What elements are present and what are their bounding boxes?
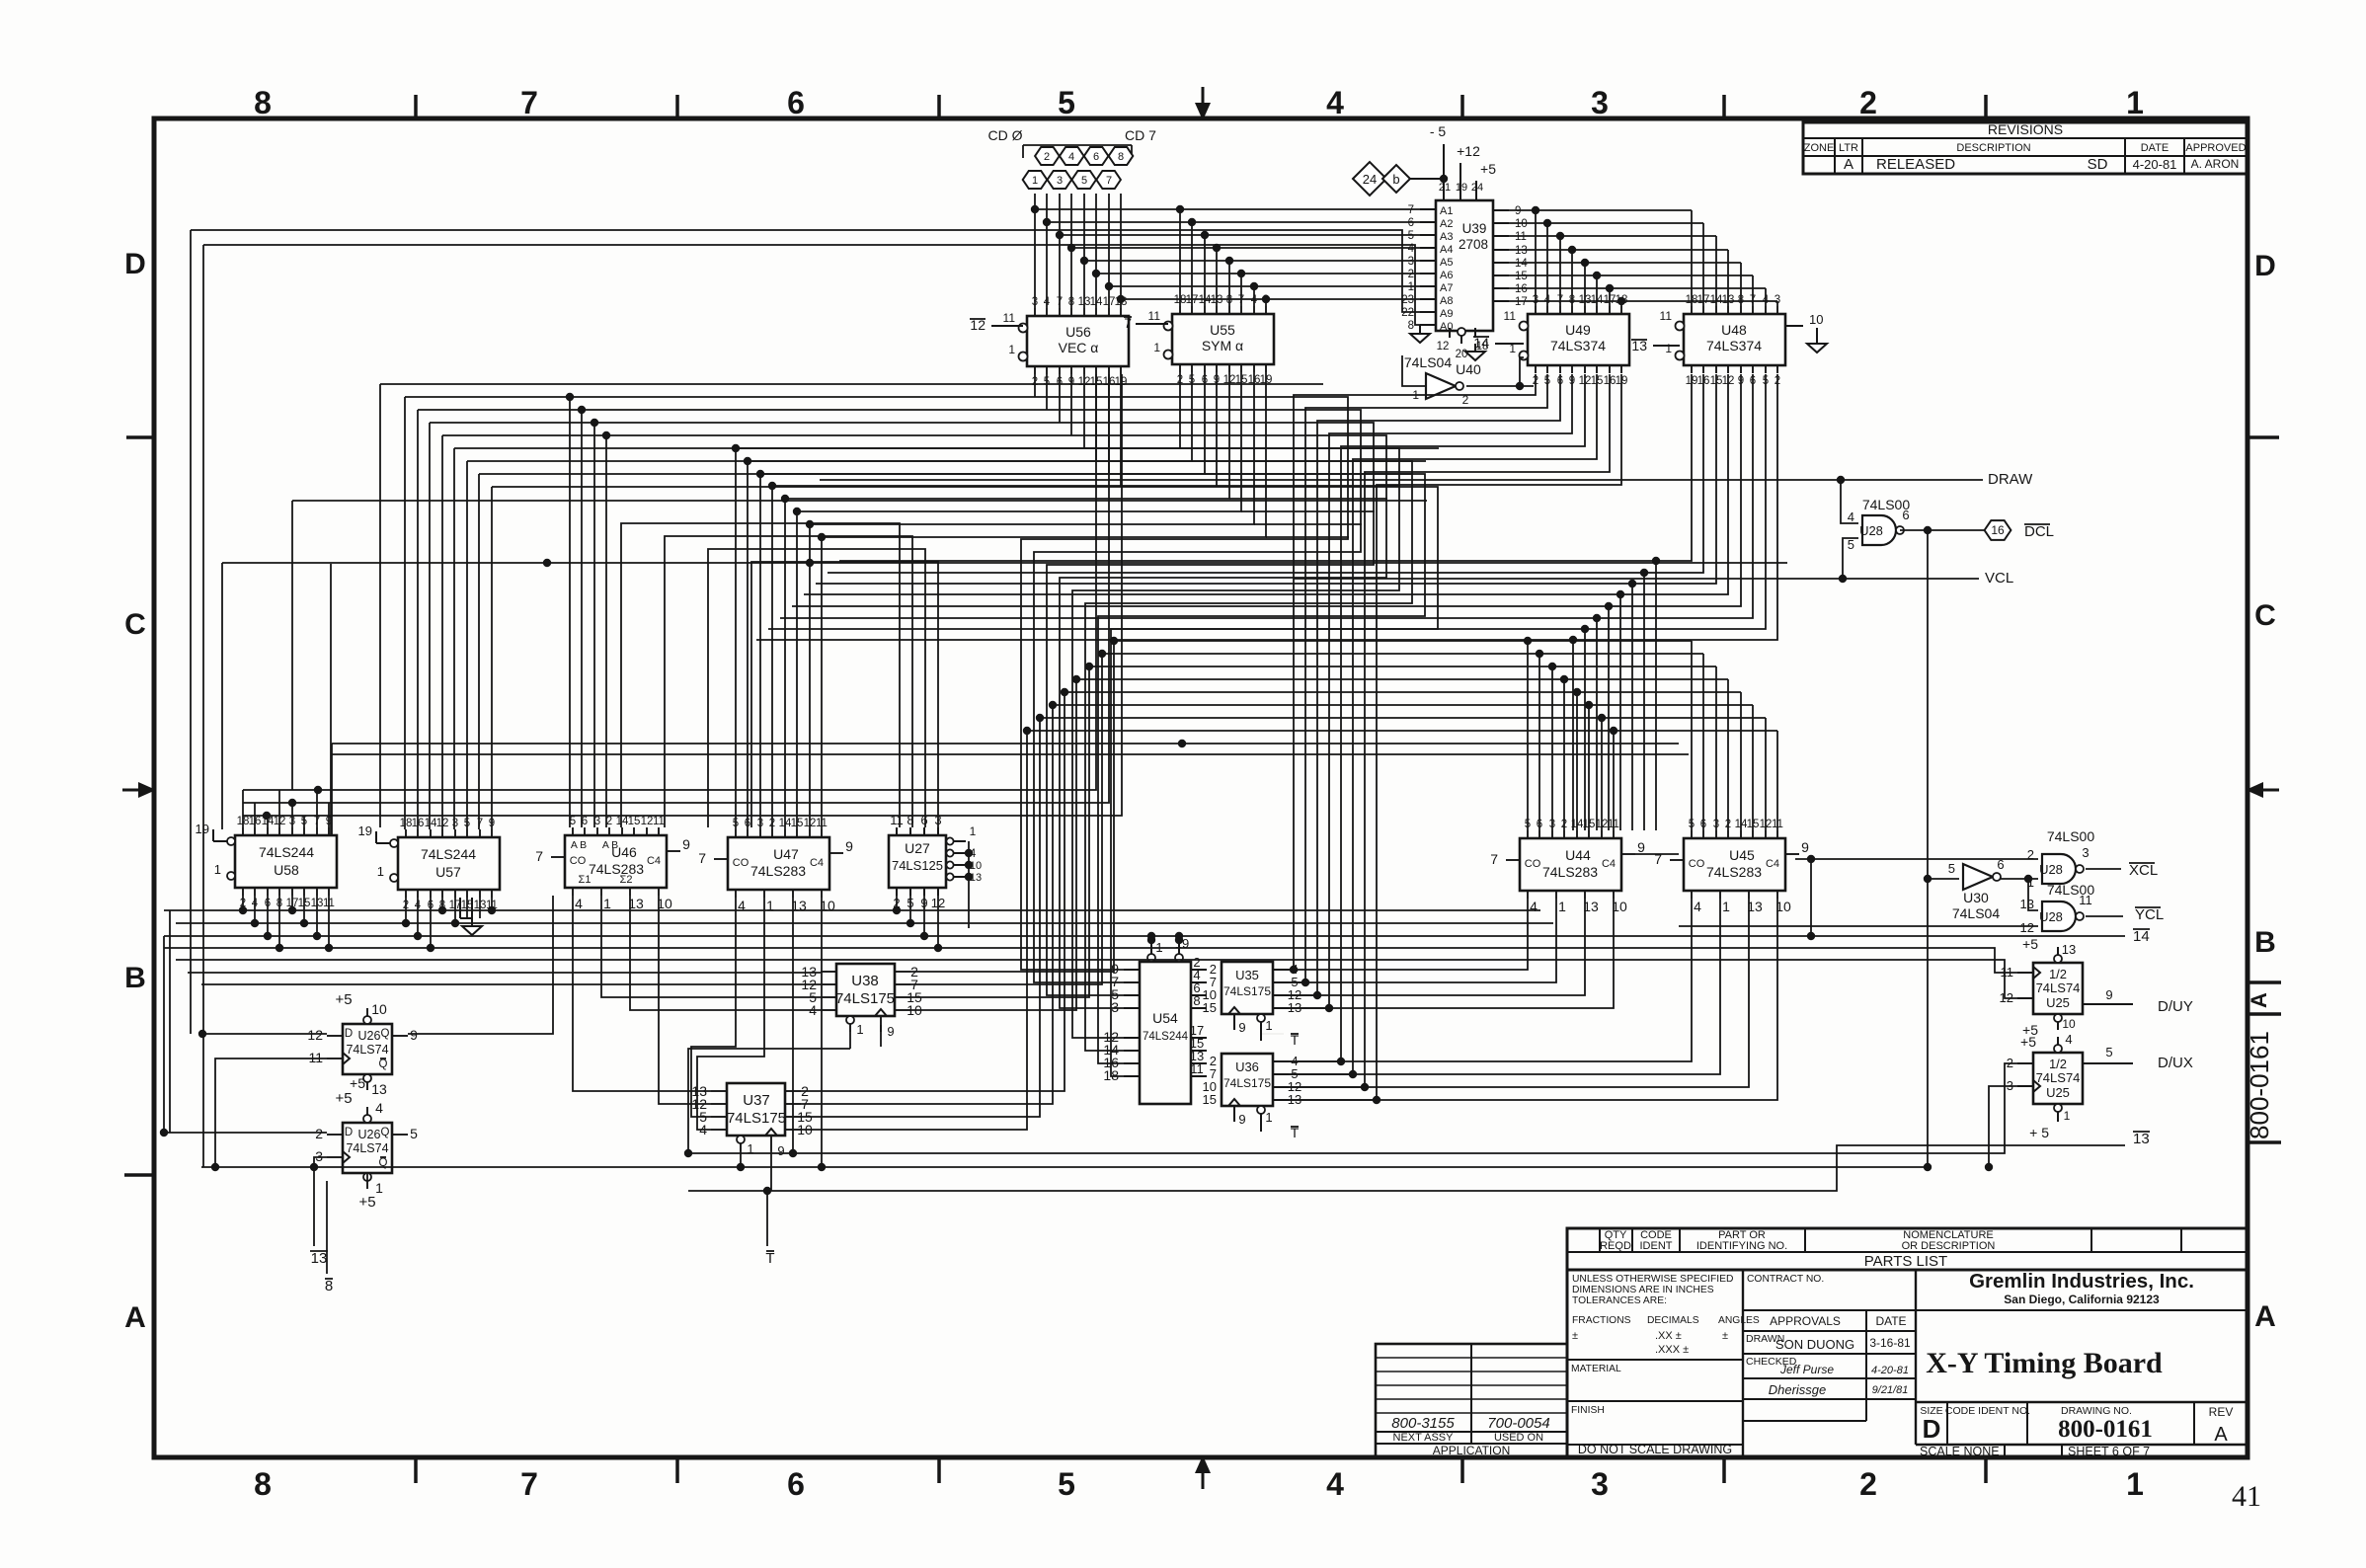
- ground under U57 outputs: [460, 898, 482, 935]
- svg-text:1: 1: [1408, 281, 1414, 293]
- svg-text:ANGLES: ANGLES: [1718, 1315, 1760, 1326]
- svg-text:6: 6: [1408, 217, 1414, 229]
- svg-text:U40: U40: [1456, 361, 1481, 377]
- svg-text:U26: U26: [358, 1128, 381, 1141]
- svg-text:C4: C4: [647, 855, 661, 867]
- svg-text:D: D: [1923, 1414, 1941, 1444]
- svg-text:A: A: [2254, 1300, 2276, 1333]
- svg-text:4: 4: [575, 896, 583, 911]
- svg-text:D: D: [345, 1028, 353, 1040]
- inverter U40 74LS04: [1404, 354, 1481, 407]
- svg-text:1: 1: [1265, 1110, 1272, 1125]
- svg-text:1: 1: [1558, 899, 1566, 914]
- wire U44 sum outputs to U35 inputs: [1289, 899, 1614, 1008]
- wire bus band2 U55 outputs to U47 and U27 inputs: [732, 372, 1439, 829]
- IC U57 74LS244: [358, 818, 500, 911]
- svg-text:+5: +5: [335, 991, 352, 1008]
- svg-text:+5: +5: [358, 1194, 375, 1211]
- svg-text:8: 8: [1193, 993, 1200, 1008]
- IC U55 SYM PROM: [1124, 294, 1274, 386]
- svg-text:9: 9: [887, 1024, 894, 1039]
- svg-text:2: 2: [1408, 269, 1414, 280]
- svg-text:41: 41: [2232, 1480, 2261, 1513]
- svg-text:1: 1: [214, 862, 221, 877]
- svg-text:CONTRACT NO.: CONTRACT NO.: [1747, 1274, 1824, 1285]
- svg-text:18: 18: [400, 818, 413, 829]
- svg-text:FINISH: FINISH: [1571, 1405, 1605, 1416]
- svg-text:1: 1: [1153, 341, 1160, 354]
- svg-text:U28: U28: [1859, 523, 1883, 538]
- IC U38 74LS175: [801, 964, 922, 1039]
- svg-text:VCL: VCL: [1985, 570, 2013, 587]
- svg-text:74LS74: 74LS74: [346, 1043, 388, 1057]
- svg-text:2: 2: [1859, 85, 1877, 120]
- svg-text:13: 13: [2062, 942, 2076, 957]
- wire CD hex connectors down to U56 inputs: [1035, 194, 1121, 308]
- svg-text:3: 3: [2082, 845, 2089, 860]
- svg-text:7: 7: [520, 85, 538, 120]
- svg-text:3: 3: [1057, 175, 1063, 187]
- svg-text:D: D: [345, 1127, 353, 1138]
- svg-text:12: 12: [2020, 920, 2034, 935]
- svg-text:13: 13: [1515, 245, 1528, 257]
- svg-text:A: A: [124, 1301, 146, 1334]
- svg-text:4: 4: [375, 1100, 383, 1116]
- application block: [1376, 1344, 1567, 1457]
- svg-text:1: 1: [2126, 1466, 2144, 1502]
- wire staircase bus to U44/U45 inputs and U38/U37 outputs: [801, 637, 1777, 1130]
- svg-text:4: 4: [1848, 510, 1854, 524]
- svg-text:11: 11: [2079, 893, 2092, 907]
- svg-text:74LS283: 74LS283: [750, 863, 806, 879]
- svg-text:DO NOT SCALE DRAWING: DO NOT SCALE DRAWING: [1578, 1443, 1732, 1456]
- svg-text:+5: +5: [335, 1090, 352, 1107]
- parts list header: [1567, 1228, 2248, 1270]
- svg-text:9: 9: [1637, 839, 1645, 855]
- svg-text:U26: U26: [358, 1029, 381, 1043]
- svg-text:D/UY: D/UY: [2158, 998, 2193, 1015]
- svg-text:2: 2: [315, 1126, 323, 1141]
- IC U37 74LS175: [691, 1083, 813, 1158]
- wire long rail crossing at y564: [222, 501, 1787, 834]
- wire left rails to U39 A9 A0 pins: [191, 230, 1420, 1167]
- svg-text:FRACTIONS: FRACTIONS: [1572, 1315, 1631, 1326]
- svg-text:TOLERANCES ARE:: TOLERANCES ARE:: [1572, 1295, 1667, 1306]
- svg-text:1/2: 1/2: [2049, 1057, 2067, 1071]
- svg-text:1: 1: [1665, 342, 1672, 355]
- svg-text:APPLICATION: APPLICATION: [1433, 1444, 1510, 1457]
- svg-text:11: 11: [1504, 309, 1517, 323]
- svg-text:74LS244: 74LS244: [259, 844, 314, 860]
- wire U58/U57 outputs onto long rails: [170, 896, 496, 1133]
- svg-text:.XX ±: .XX ±: [1655, 1330, 1682, 1342]
- net label T bar at U35: [1261, 1032, 1300, 1048]
- svg-text:LTR: LTR: [1839, 142, 1858, 154]
- svg-text:U57: U57: [435, 864, 461, 880]
- svg-text:8: 8: [1118, 151, 1124, 163]
- svg-text:15: 15: [628, 816, 641, 827]
- svg-text:74LS00: 74LS00: [2047, 828, 2094, 844]
- svg-text:Q: Q: [381, 1127, 390, 1138]
- net label T bar at U36: [1261, 1125, 1300, 1140]
- svg-text:U45: U45: [1729, 847, 1755, 863]
- svg-text:10: 10: [1515, 218, 1528, 230]
- svg-text:10: 10: [2062, 1017, 2076, 1031]
- svg-text:U44: U44: [1565, 847, 1591, 863]
- svg-text:U49: U49: [1565, 322, 1591, 338]
- svg-text:4-20-81: 4-20-81: [1871, 1365, 1909, 1376]
- svg-text:C4: C4: [810, 857, 824, 869]
- IC U49 74LS374: [1473, 294, 1629, 387]
- svg-text:7: 7: [1408, 204, 1414, 216]
- svg-text:D: D: [124, 248, 146, 280]
- svg-text:U37: U37: [743, 1092, 770, 1109]
- svg-text:Σ2: Σ2: [620, 874, 633, 886]
- NAND gate U28 DCL 74LS00: [1848, 497, 1911, 552]
- svg-text:+5: +5: [350, 1075, 365, 1091]
- svg-text:1: 1: [603, 896, 611, 911]
- svg-text:3: 3: [1111, 999, 1119, 1015]
- wire U46 outputs to U38/U37 inputs: [573, 896, 821, 1104]
- svg-text:SYM α: SYM α: [1202, 338, 1243, 353]
- wire loops U46/U47 to U27 inputs: [621, 523, 938, 827]
- svg-text:9: 9: [777, 1143, 784, 1158]
- svg-text:A9: A9: [1440, 308, 1453, 320]
- IC U36 74LS175: [1203, 1054, 1302, 1127]
- svg-text:U55: U55: [1210, 322, 1235, 338]
- svg-text:3: 3: [452, 818, 458, 829]
- svg-text:A B: A B: [602, 839, 618, 851]
- svg-text:DATE: DATE: [2141, 142, 2169, 154]
- flip-flop U26 lower 74LS74: [315, 1090, 418, 1196]
- NAND gate U28 YCL 74LS00: [2020, 882, 2095, 935]
- svg-text:6: 6: [1093, 151, 1099, 163]
- svg-text:13: 13: [371, 1081, 387, 1097]
- svg-text:11: 11: [1515, 231, 1527, 243]
- zone letters right: [2254, 250, 2276, 1333]
- ground under U39 pin 18: [1465, 344, 1485, 360]
- svg-text:15: 15: [1203, 1000, 1217, 1015]
- svg-text:APPROVALS: APPROVALS: [1770, 1314, 1841, 1328]
- svg-text:A4: A4: [1440, 244, 1453, 256]
- svg-text:+5: +5: [2020, 1034, 2036, 1050]
- svg-text:14: 14: [1515, 258, 1528, 270]
- svg-text:19: 19: [196, 822, 209, 836]
- svg-text:8: 8: [1408, 320, 1414, 332]
- svg-text:C4: C4: [1602, 858, 1616, 870]
- svg-text:IDENT: IDENT: [1640, 1240, 1673, 1252]
- svg-text:11: 11: [1003, 311, 1016, 325]
- svg-text:U25: U25: [2046, 995, 2070, 1010]
- wire U58 input feeders from middle columns: [243, 374, 1122, 827]
- svg-text:11: 11: [1660, 309, 1673, 323]
- IC U54 74LS244 buffer: [1103, 936, 1207, 1104]
- svg-text:74LS74: 74LS74: [2036, 980, 2081, 995]
- zone numbers top: [254, 85, 2144, 120]
- svg-text:23: 23: [1401, 294, 1414, 306]
- svg-text:4: 4: [1068, 151, 1074, 163]
- IC U44 74LS283 adder: [1490, 819, 1645, 914]
- svg-text:74LS283: 74LS283: [589, 861, 644, 877]
- svg-text:+12: +12: [1457, 143, 1480, 159]
- svg-text:b: b: [1392, 172, 1399, 187]
- wire DRAW net: [820, 476, 1983, 523]
- svg-text:9: 9: [1515, 205, 1521, 217]
- svg-text:A: A: [2247, 992, 2271, 1008]
- svg-text:U28: U28: [2039, 909, 2063, 924]
- svg-text:74LS04: 74LS04: [1952, 905, 2000, 921]
- svg-text:1: 1: [856, 1022, 863, 1037]
- svg-text:DIMENSIONS ARE IN INCHES: DIMENSIONS ARE IN INCHES: [1572, 1285, 1714, 1295]
- svg-text:MATERIAL: MATERIAL: [1571, 1364, 1621, 1374]
- wire U49 outputs loops to U35/U36 inputs: [1289, 374, 1621, 1104]
- IC U39 2708 EPROM: [1401, 182, 1528, 360]
- svg-text:13: 13: [311, 1250, 328, 1267]
- svg-text:700-0054: 700-0054: [1487, 1415, 1549, 1432]
- svg-text:San Diego, California 92123: San Diego, California 92123: [2004, 1293, 2160, 1306]
- svg-text:1: 1: [375, 1180, 383, 1196]
- svg-text:74LS374: 74LS374: [1550, 338, 1606, 353]
- svg-text:Jeff Purse: Jeff Purse: [1779, 1363, 1834, 1376]
- wire U45 sum outputs to U36 inputs: [1289, 899, 1777, 1100]
- svg-text:A2: A2: [1440, 218, 1453, 230]
- svg-text:YCL: YCL: [2135, 906, 2164, 923]
- wire bottom long rails: [201, 1025, 2125, 1246]
- svg-text:CO: CO: [570, 855, 587, 867]
- svg-text:1: 1: [377, 864, 384, 879]
- svg-text:X-Y Timing Board: X-Y Timing Board: [1926, 1347, 2163, 1379]
- svg-text:74LS175: 74LS175: [835, 990, 895, 1007]
- svg-text:A. ARON: A. ARON: [2191, 157, 2240, 171]
- hex connector 16 DCL: [1985, 520, 2054, 540]
- IC U45 74LS283 adder: [1654, 819, 1809, 914]
- svg-text:800-3155: 800-3155: [1391, 1415, 1455, 1432]
- svg-text:A B: A B: [571, 839, 587, 851]
- svg-text:7: 7: [535, 848, 543, 864]
- NAND gate U28 XCL 74LS00: [2027, 828, 2095, 890]
- svg-text:U58: U58: [274, 862, 299, 878]
- svg-text:4: 4: [1326, 85, 1344, 120]
- svg-text:7: 7: [477, 818, 483, 829]
- svg-text:8: 8: [325, 1278, 333, 1294]
- svg-text:REV: REV: [2209, 1405, 2234, 1419]
- svg-text:9: 9: [1801, 839, 1809, 855]
- svg-text:8: 8: [254, 85, 272, 120]
- svg-text:DECIMALS: DECIMALS: [1647, 1315, 1699, 1326]
- svg-text:74LS175: 74LS175: [1223, 1076, 1271, 1090]
- revisions block: [1803, 121, 2248, 174]
- svg-text:UNLESS OTHERWISE SPECIFIED: UNLESS OTHERWISE SPECIFIED: [1572, 1274, 1733, 1285]
- ground under U39 pin A0: [1410, 325, 1430, 343]
- svg-text:U47: U47: [773, 846, 799, 862]
- IC U27 74LS125 buffer: [889, 813, 982, 910]
- svg-text:PARTS LIST: PARTS LIST: [1864, 1253, 1947, 1270]
- svg-text:7: 7: [520, 1466, 538, 1502]
- svg-text:3: 3: [1408, 256, 1414, 268]
- svg-text:SD: SD: [2088, 156, 2108, 173]
- svg-text:VEC α: VEC α: [1059, 340, 1099, 355]
- wire U40 inverter connections: [1402, 355, 1534, 390]
- IC U47 74LS283 adder: [698, 818, 853, 913]
- svg-text:U28: U28: [2039, 862, 2063, 877]
- svg-text:.XXX ±: .XXX ±: [1655, 1344, 1689, 1356]
- svg-text:D/UX: D/UX: [2158, 1055, 2193, 1071]
- svg-text:9: 9: [1238, 1020, 1245, 1035]
- svg-text:C4: C4: [1766, 858, 1779, 870]
- svg-text:±: ±: [1572, 1330, 1578, 1342]
- svg-text:U30: U30: [1963, 890, 1989, 905]
- svg-text:Σ1: Σ1: [579, 874, 591, 886]
- svg-text:74LS74: 74LS74: [346, 1141, 388, 1155]
- svg-text:74LS244: 74LS244: [421, 846, 476, 862]
- svg-text:11: 11: [653, 816, 665, 827]
- wire U48 outputs staircase to U44/U45 region: [756, 374, 1777, 830]
- svg-text:U38: U38: [851, 973, 879, 989]
- svg-text:A: A: [1844, 156, 1853, 173]
- svg-text:3: 3: [1591, 1466, 1609, 1502]
- svg-text:2708: 2708: [1459, 237, 1488, 252]
- wire U26 flip-flop connections: [160, 896, 553, 1274]
- IC U58 74LS244: [196, 816, 337, 909]
- svg-text:11: 11: [1148, 309, 1161, 323]
- svg-text:9/21/81: 9/21/81: [1872, 1384, 1909, 1396]
- svg-text:1/2: 1/2: [2049, 967, 2067, 981]
- svg-text:A5: A5: [1440, 257, 1453, 269]
- svg-text:9: 9: [410, 1027, 418, 1043]
- svg-text:Q: Q: [379, 1058, 388, 1070]
- wire U44 carry to U45: [1635, 853, 1679, 855]
- wire U27 output column: [968, 841, 970, 928]
- svg-text:Q: Q: [381, 1028, 390, 1040]
- wire long rails y753 y764: [332, 740, 1689, 834]
- svg-text:6: 6: [787, 85, 805, 120]
- svg-text:22: 22: [1401, 307, 1414, 319]
- svg-text:5: 5: [1081, 175, 1087, 187]
- inverter U30 74LS04: [1948, 857, 2005, 921]
- svg-text:USED ON: USED ON: [1494, 1432, 1543, 1444]
- svg-text:17: 17: [1515, 296, 1528, 308]
- svg-text:DESCRIPTION: DESCRIPTION: [1956, 142, 2030, 154]
- svg-text:16: 16: [1515, 283, 1528, 295]
- flip-flop U26 upper 74LS74: [307, 991, 418, 1097]
- wire CD bus branches to U55 inputs and U39 address pins: [1031, 205, 1420, 306]
- svg-text:C: C: [2254, 599, 2276, 632]
- svg-text:B: B: [2254, 926, 2276, 959]
- svg-text:CO: CO: [733, 857, 749, 869]
- svg-text:1: 1: [2064, 1109, 2071, 1123]
- svg-text:D: D: [2254, 250, 2276, 282]
- svg-text:6: 6: [787, 1466, 805, 1502]
- svg-text:74LS74: 74LS74: [2036, 1070, 2081, 1085]
- svg-text:C: C: [124, 608, 146, 641]
- svg-text:XCL: XCL: [2129, 862, 2158, 879]
- svg-text:1: 1: [2126, 85, 2144, 120]
- svg-text:3-16-81: 3-16-81: [1869, 1336, 1911, 1350]
- svg-text:DATE: DATE: [1875, 1314, 1906, 1328]
- flip-flop U25 upper 1/2 74LS74: [2000, 936, 2133, 1038]
- svg-text:5: 5: [1848, 537, 1854, 552]
- sheet connector diamond 24 / b: [1353, 162, 1448, 196]
- svg-text:CO: CO: [1689, 858, 1705, 870]
- svg-text:1: 1: [1032, 175, 1038, 187]
- svg-text:DCL: DCL: [2024, 523, 2054, 540]
- svg-text:U27: U27: [905, 840, 930, 856]
- IC U56 VEC PROM: [970, 296, 1129, 388]
- svg-text:74LS125: 74LS125: [892, 858, 943, 873]
- svg-text:4: 4: [2065, 1032, 2072, 1047]
- svg-text:A0: A0: [1440, 321, 1453, 333]
- svg-text:74LS175: 74LS175: [1223, 984, 1271, 998]
- svg-text:3: 3: [1591, 85, 1609, 120]
- svg-text:5: 5: [1058, 85, 1075, 120]
- svg-text:SON DUONG: SON DUONG: [1775, 1337, 1854, 1352]
- svg-text:A7: A7: [1440, 282, 1453, 294]
- wire XCL YCL gate chain: [1679, 855, 2123, 940]
- connector hexagons CD0-CD7: [988, 127, 1157, 189]
- title block: [1567, 1270, 2248, 1458]
- power +12 to U39: [1457, 143, 1480, 194]
- svg-text:5: 5: [1058, 1466, 1075, 1502]
- ground at U48 pin 10: [1807, 344, 1827, 353]
- power +5 to U39: [1476, 161, 1496, 194]
- wire long rails B zone y922-y1010: [164, 896, 2125, 1133]
- svg-text:U39: U39: [1462, 221, 1487, 236]
- svg-text:13: 13: [2133, 1131, 2150, 1147]
- svg-text:20: 20: [1456, 349, 1468, 360]
- svg-text:- 5: - 5: [1430, 123, 1447, 139]
- svg-text:8: 8: [254, 1466, 272, 1502]
- svg-text:74LS283: 74LS283: [1706, 864, 1762, 880]
- svg-text:12: 12: [641, 816, 654, 827]
- svg-text:REQD: REQD: [1600, 1240, 1631, 1252]
- svg-text:U25: U25: [2046, 1085, 2070, 1100]
- svg-text:4-20-81: 4-20-81: [2133, 157, 2177, 172]
- svg-text:7: 7: [1490, 851, 1498, 867]
- svg-text:11: 11: [1190, 1061, 1204, 1076]
- svg-text:REVISIONS: REVISIONS: [1988, 121, 2063, 137]
- svg-text:A3: A3: [1440, 231, 1453, 243]
- IC U48 74LS374: [1631, 294, 1823, 387]
- svg-text:13: 13: [2020, 897, 2034, 911]
- svg-text:3: 3: [315, 1148, 323, 1164]
- IC U35 74LS175: [1203, 962, 1302, 1035]
- wire VCL net: [1294, 538, 1979, 583]
- wire U47 outputs to U37 inputs and rails: [691, 898, 826, 1171]
- svg-text:Dherissge: Dherissge: [1769, 1382, 1827, 1397]
- wire U39 data outputs to U49 and U48 inputs: [1509, 206, 1777, 306]
- svg-text:14: 14: [2133, 928, 2150, 945]
- svg-text:1: 1: [1722, 899, 1730, 914]
- svg-text:7: 7: [698, 850, 706, 866]
- svg-text:74LS283: 74LS283: [1542, 864, 1598, 880]
- wire DCL output to hex 16: [1900, 526, 1984, 1167]
- svg-text:12: 12: [307, 1027, 323, 1043]
- svg-text:5: 5: [1408, 230, 1414, 242]
- svg-text:+ 5: + 5: [2029, 1125, 2049, 1140]
- svg-text:9: 9: [845, 838, 853, 854]
- svg-text:5: 5: [410, 1126, 418, 1141]
- svg-text:APPROVED: APPROVED: [2185, 142, 2246, 154]
- svg-text:10: 10: [1809, 312, 1823, 327]
- svg-text:T: T: [765, 1250, 774, 1267]
- svg-text:12: 12: [1437, 341, 1450, 353]
- svg-text:ZONE: ZONE: [1804, 142, 1835, 154]
- svg-text:1: 1: [970, 824, 977, 838]
- zone numbers bottom: [254, 1466, 2144, 1502]
- svg-text:74LS175: 74LS175: [727, 1110, 786, 1127]
- svg-text:2: 2: [1044, 151, 1050, 163]
- svg-text:74LS244: 74LS244: [1143, 1031, 1189, 1043]
